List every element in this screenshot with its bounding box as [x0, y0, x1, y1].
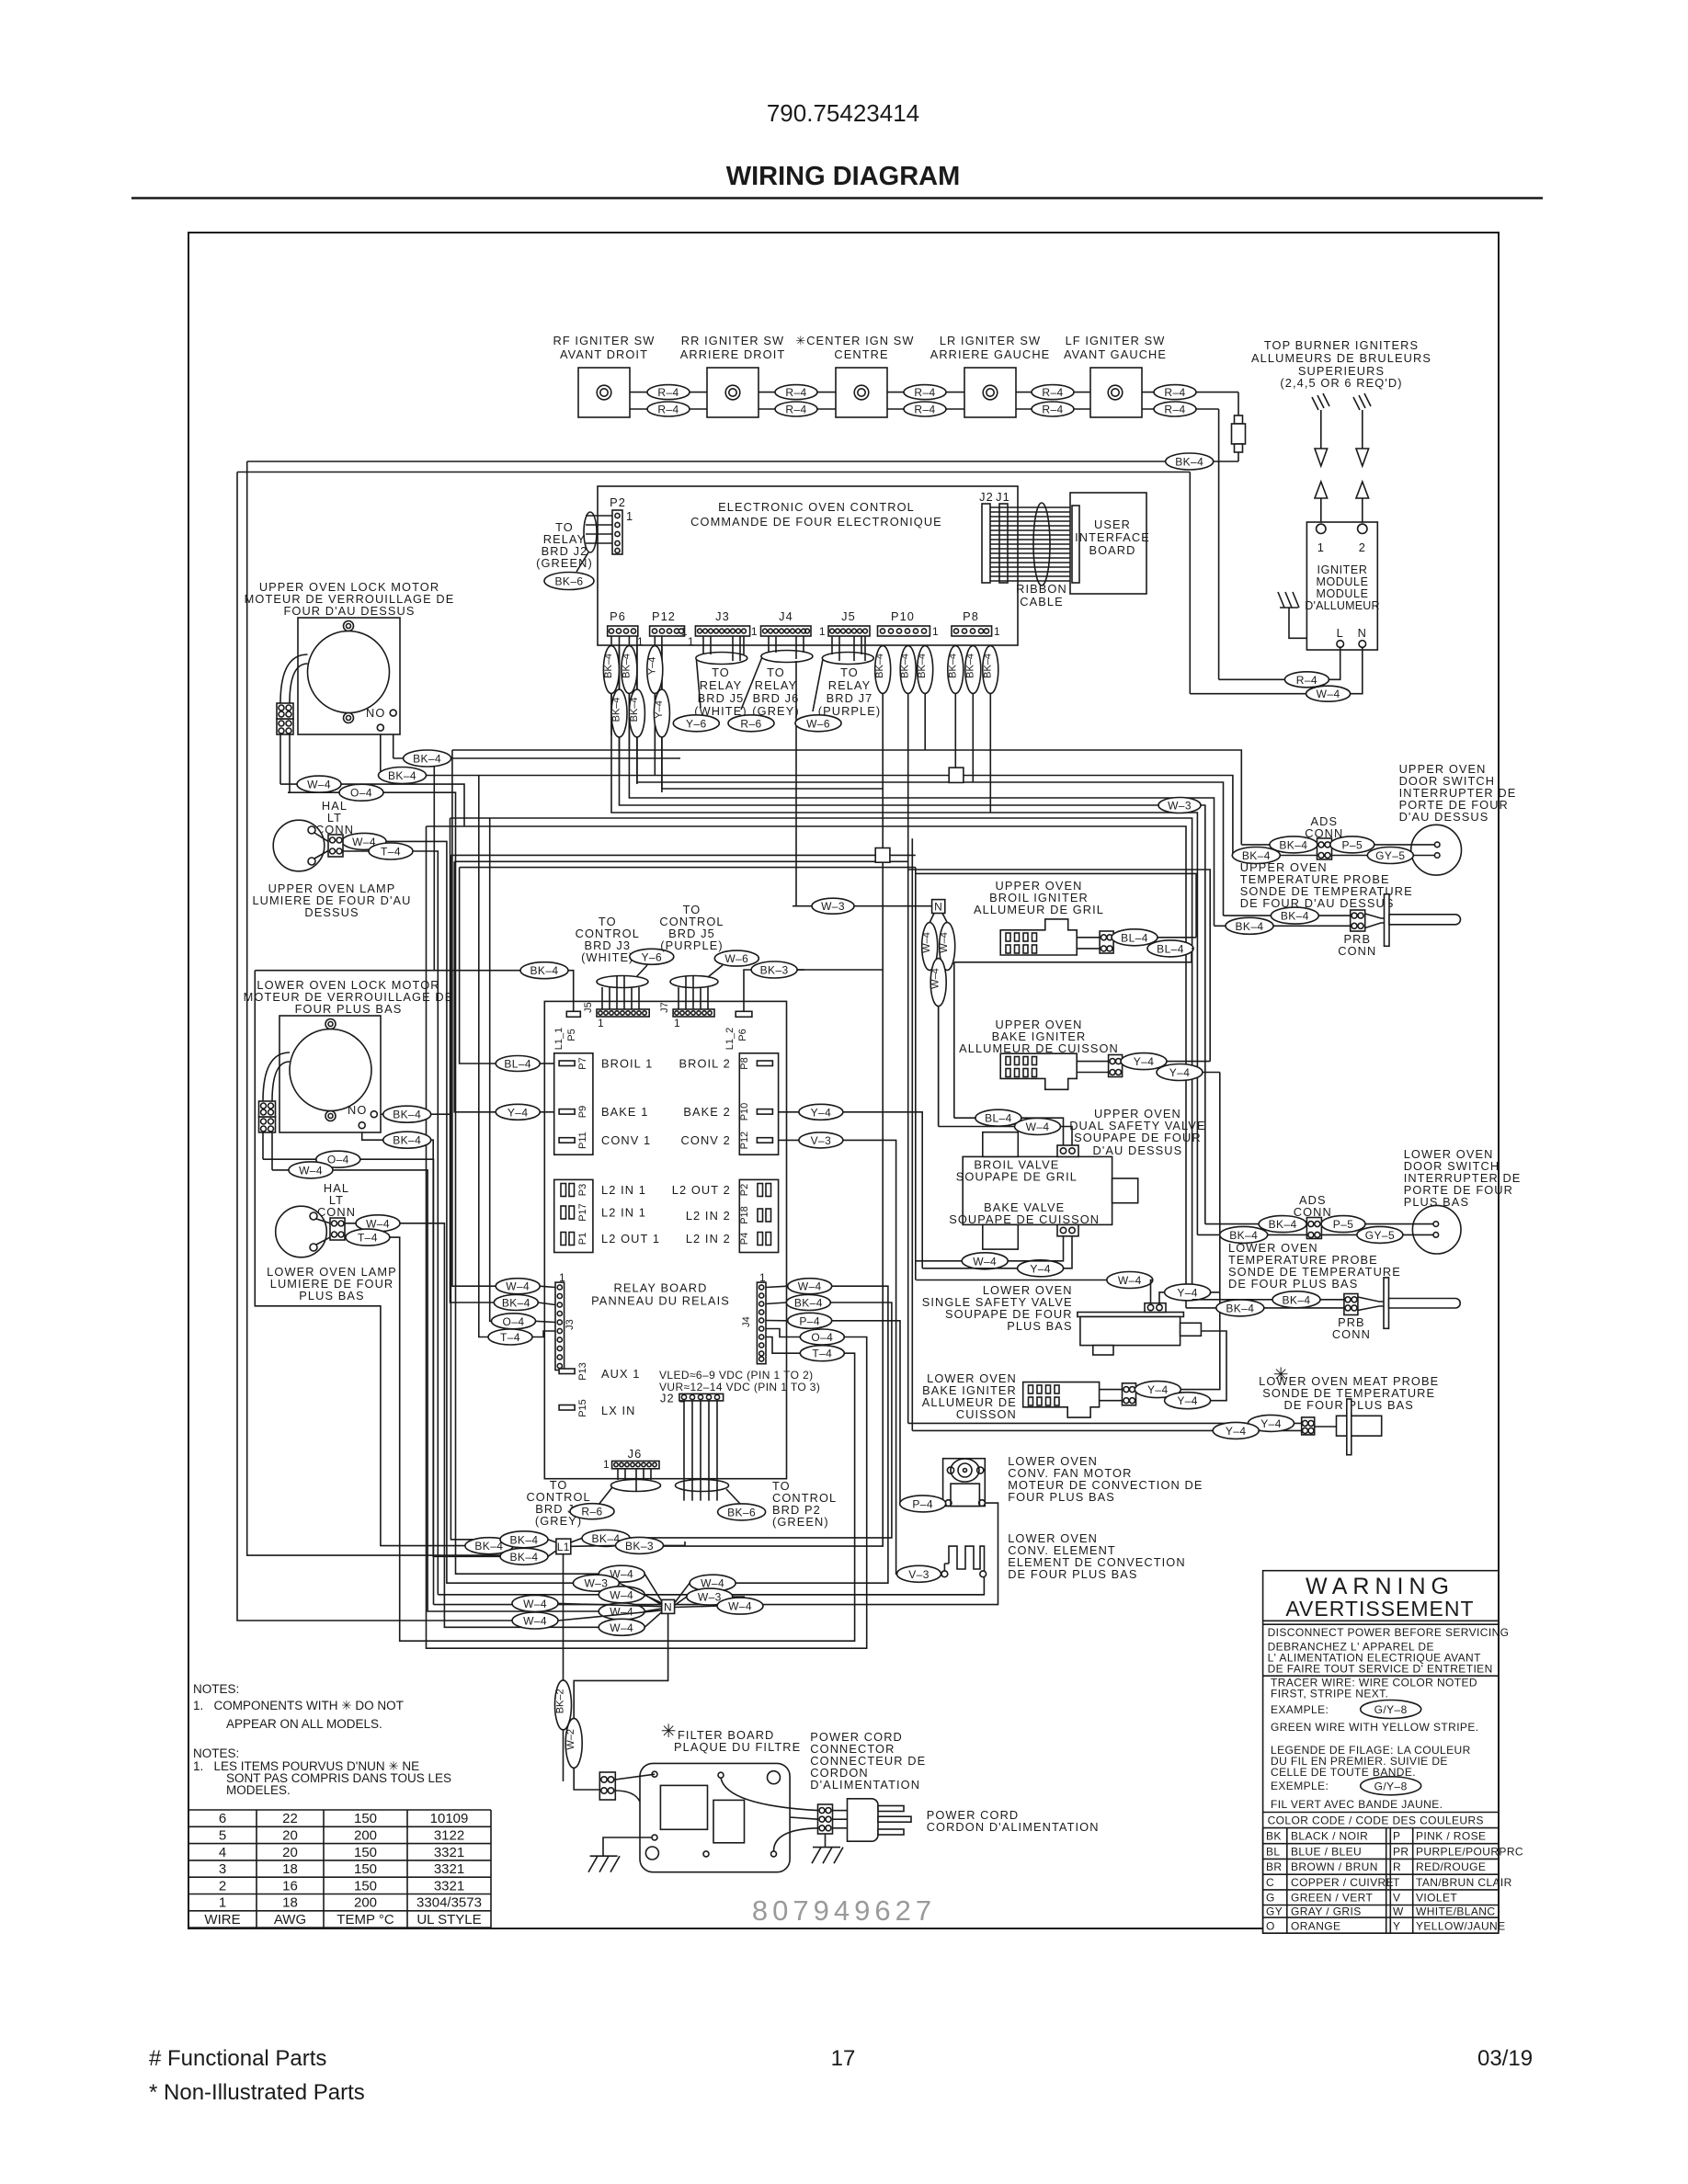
svg-text:LR IGNITER SW: LR IGNITER SW: [940, 334, 1041, 347]
svg-text:P8: P8: [739, 1057, 750, 1069]
wire: [427, 826, 1187, 1308]
svg-text:BK–4: BK–4: [1269, 1218, 1297, 1231]
wire label Y-4: [1249, 1415, 1295, 1431]
svg-text:T–4: T–4: [358, 1232, 378, 1245]
svg-text:W–4: W–4: [299, 1164, 323, 1177]
wire: [832, 1321, 900, 1504]
wire label Y-6: [673, 715, 719, 732]
svg-text:GY–5: GY–5: [1375, 849, 1405, 862]
wire label BK-4: [1259, 1216, 1306, 1233]
svg-text:L2 IN 2: L2 IN 2: [686, 1232, 731, 1246]
wire label Y-6: [630, 949, 674, 964]
wire: [255, 970, 520, 972]
wire: [843, 1140, 897, 1574]
svg-text:4: 4: [219, 1845, 226, 1860]
wire label BK-4: [629, 689, 644, 737]
svg-text:1: 1: [681, 625, 688, 638]
svg-text:Y–4: Y–4: [1226, 1425, 1247, 1438]
svg-text:CONN: CONN: [1338, 944, 1376, 958]
relay board connector L1_2 P6: [736, 1011, 752, 1017]
wire label W-4: [496, 1279, 540, 1294]
wire label BK-4: [965, 646, 981, 694]
svg-text:BK–4: BK–4: [1283, 1293, 1311, 1306]
svg-text:W–3: W–3: [1168, 800, 1192, 813]
wire label O-4: [492, 1314, 536, 1329]
svg-text:PINK / ROSE: PINK / ROSE: [1416, 1830, 1486, 1843]
wire: [460, 868, 540, 1064]
svg-text:BLACK / NOIR: BLACK / NOIR: [1291, 1830, 1368, 1843]
svg-text:3321: 3321: [434, 1861, 464, 1877]
svg-text:5: 5: [219, 1828, 226, 1844]
svg-text:PLAQUE DU FILTRE: PLAQUE DU FILTRE: [674, 1740, 801, 1754]
svg-text:WIRE: WIRE: [204, 1912, 240, 1928]
svg-text:Y–4: Y–4: [1177, 1394, 1198, 1407]
svg-text:6: 6: [219, 1811, 226, 1826]
svg-text:BR: BR: [1266, 1860, 1282, 1873]
relay board (PANNEAU DU RELAIS): [544, 1001, 820, 1478]
upper lock motor wire label ovals: [297, 750, 451, 859]
relay board connectors P7 P9 P11 (BROIL1/BAKE1/CONV1): [554, 1053, 593, 1155]
wire: [454, 861, 540, 1112]
svg-text:P–5: P–5: [1333, 1218, 1354, 1231]
J2 bundle down: [684, 1401, 717, 1501]
wire: [263, 1159, 434, 1604]
wire: [733, 1596, 745, 1598]
svg-text:(GREEN): (GREEN): [772, 1515, 829, 1529]
wire label BK-4: [500, 1531, 548, 1548]
wire: [451, 854, 915, 856]
svg-text:PANNEAU DU RELAIS: PANNEAU DU RELAIS: [591, 1293, 730, 1307]
svg-text:RF IGNITER SW: RF IGNITER SW: [553, 334, 656, 347]
svg-text:1: 1: [603, 1458, 610, 1471]
wire label Y-4: [1165, 1284, 1211, 1301]
wire: [907, 636, 909, 1423]
svg-text:BRD J6: BRD J6: [753, 691, 800, 705]
wire: [237, 472, 512, 1621]
wire label W-4: [342, 833, 386, 849]
wire label R-4: [904, 402, 946, 416]
svg-text:AWG: AWG: [274, 1912, 306, 1928]
wire label W-4: [1306, 686, 1351, 701]
wire label W-4: [922, 923, 938, 971]
leads down from block: [279, 734, 281, 784]
wire label W-4: [289, 1162, 333, 1178]
svg-text:BRD J5: BRD J5: [698, 691, 745, 705]
svg-text:BK–4: BK–4: [413, 753, 441, 766]
svg-text:1: 1: [626, 509, 633, 523]
wire label BK-4: [603, 646, 619, 694]
wire: [345, 1237, 855, 1641]
svg-text:Y–4: Y–4: [508, 1106, 529, 1119]
svg-text:R–4: R–4: [657, 386, 679, 399]
svg-text:COPPER / CUIVRE: COPPER / CUIVRE: [1291, 1876, 1394, 1889]
wire label BL-4: [496, 1056, 540, 1072]
node N (neutral junction, upper oven): [793, 905, 932, 907]
wire label T-4: [346, 1229, 390, 1246]
wire label P-4: [788, 1313, 832, 1328]
wire label BK-4: [983, 646, 998, 694]
wire: [393, 716, 680, 758]
svg-text:1. COMPONENTS WITH ✳ DO NOT: 1. COMPONENTS WITH ✳ DO NOT: [193, 1699, 404, 1712]
svg-text:GY–5: GY–5: [1365, 1229, 1395, 1242]
svg-text:P12: P12: [739, 1132, 750, 1150]
svg-text:PR: PR: [1393, 1846, 1409, 1859]
svg-text:V: V: [1393, 1892, 1400, 1905]
svg-text:P17: P17: [577, 1203, 588, 1222]
svg-text:ALLUMEURS DE BRULEURS: ALLUMEURS DE BRULEURS: [1251, 351, 1431, 365]
wire label W-4: [1015, 1119, 1061, 1135]
svg-text:Y–4: Y–4: [646, 657, 657, 676]
svg-text:O–4: O–4: [327, 1154, 349, 1166]
wire: [644, 1594, 984, 1596]
wire label BK-2: [555, 1680, 572, 1730]
wire label W-4: [297, 776, 341, 792]
wire: [451, 818, 539, 1302]
wire label R-4: [647, 385, 690, 400]
wire label BK-6: [718, 1504, 766, 1520]
svg-text:J2: J2: [979, 490, 994, 504]
wire label T-4: [800, 1346, 844, 1361]
svg-text:MODULE: MODULE: [1316, 575, 1368, 588]
connector block left: [277, 719, 293, 734]
svg-text:R–4: R–4: [657, 404, 679, 416]
svg-text:150: 150: [354, 1878, 377, 1894]
svg-text:BK–4: BK–4: [947, 654, 958, 678]
svg-text:P4: P4: [739, 1233, 750, 1245]
svg-text:O–4: O–4: [811, 1331, 833, 1344]
wire: [343, 851, 438, 1595]
vertical ovals row1/row2 under P6/P12: [611, 636, 662, 792]
svg-text:P10: P10: [891, 609, 915, 623]
wire label BK-4: [404, 750, 451, 767]
svg-text:150: 150: [354, 1845, 377, 1860]
wire label W-4: [690, 1575, 736, 1591]
svg-text:TAN/BRUN CLAIR: TAN/BRUN CLAIR: [1416, 1876, 1512, 1889]
svg-text:VIOLET: VIOLET: [1416, 1892, 1457, 1905]
svg-text:DESSUS: DESSUS: [304, 905, 359, 919]
svg-text:G/Y–8: G/Y–8: [1374, 1703, 1408, 1716]
wire label W-6: [714, 950, 758, 966]
wire label BK-4: [1232, 847, 1280, 864]
wire label Y-4: [496, 1104, 540, 1120]
svg-text:P11: P11: [577, 1132, 588, 1149]
svg-text:BK–4: BK–4: [393, 1109, 421, 1121]
wire: [795, 661, 797, 906]
wire label W-3: [812, 898, 854, 914]
svg-text:P5: P5: [566, 1029, 577, 1041]
svg-text:GREEN / VERT: GREEN / VERT: [1291, 1892, 1374, 1905]
svg-text:R–4: R–4: [785, 386, 806, 399]
svg-text:L1_2: L1_2: [724, 1028, 736, 1050]
svg-text:L2 OUT 2: L2 OUT 2: [672, 1183, 731, 1197]
wire label BK-6: [544, 573, 594, 590]
svg-text:N: N: [664, 1600, 672, 1613]
svg-text:W–4: W–4: [930, 968, 941, 989]
wire label W-4: [940, 923, 955, 971]
svg-text:J4: J4: [779, 609, 793, 623]
svg-text:17: 17: [831, 2046, 856, 2071]
relay board connectors P2 P18 P4 (L2 IN/OUT 2): [739, 1179, 778, 1252]
wire label P-5: [1330, 836, 1374, 853]
wire label BK-4: [1272, 1291, 1320, 1308]
igniter switch CENTER: [836, 368, 887, 417]
svg-text:1: 1: [751, 625, 758, 638]
electronic oven control board (EOC): [536, 486, 1150, 648]
svg-text:W–3: W–3: [698, 1591, 722, 1604]
svg-text:R–4: R–4: [914, 404, 935, 416]
wire: [664, 636, 884, 1546]
wire label W-6: [795, 715, 841, 732]
svg-text:W–6: W–6: [806, 717, 830, 730]
junction square: [949, 768, 964, 782]
wire: [381, 731, 1233, 855]
lower oven lamp (HAL LT CONN): [267, 1181, 397, 1302]
svg-text:RIBBON: RIBBON: [1016, 582, 1067, 596]
wire: [454, 860, 908, 862]
svg-text:V–3: V–3: [811, 1134, 832, 1147]
wire label W-4: [599, 1587, 644, 1603]
wire label O-4: [339, 784, 383, 801]
svg-text:D'ALIMENTATION: D'ALIMENTATION: [810, 1778, 920, 1792]
warning box and color code table: [1263, 1571, 1523, 1934]
svg-text:W: W: [1393, 1905, 1404, 1918]
wire: [247, 461, 548, 1555]
wire label P-5: [1321, 1216, 1365, 1233]
wire: [288, 792, 599, 1574]
svg-text:P3: P3: [577, 1184, 588, 1196]
svg-text:BK–4: BK–4: [917, 654, 928, 678]
svg-text:* Non-Illustrated Parts: * Non-Illustrated Parts: [149, 2080, 365, 2105]
svg-text:COLOR CODE / CODE DES COULEU: COLOR CODE / CODE DES COULEURS: [1268, 1814, 1484, 1827]
svg-text:NOTES:: NOTES:: [193, 1746, 239, 1760]
svg-text:BK–4: BK–4: [603, 654, 614, 678]
svg-text:16: 16: [282, 1878, 298, 1894]
bus wires to left: [247, 461, 1238, 462]
igniter switch LF (AVANT GAUCHE): [1090, 368, 1142, 417]
svg-text:BK–6: BK–6: [555, 575, 584, 588]
svg-text:BL–4: BL–4: [985, 1112, 1012, 1125]
svg-text:(2,4,5 OR 6 REQ'D): (2,4,5 OR 6 REQ'D): [1280, 376, 1402, 390]
svg-text:✳: ✳: [661, 1722, 678, 1742]
wire: [989, 636, 991, 813]
ground (power cord connector): [812, 1834, 843, 1863]
svg-text:L: L: [1337, 626, 1344, 640]
wire label W-4: [599, 1565, 644, 1582]
svg-text:RED/ROUGE: RED/ROUGE: [1416, 1860, 1486, 1873]
svg-text:J6: J6: [628, 1447, 643, 1461]
wire label O-4: [316, 1151, 360, 1167]
svg-text:D'AU DESSUS: D'AU DESSUS: [1399, 810, 1489, 824]
wire: [345, 1223, 599, 1628]
node L1 (line junction): [556, 1539, 571, 1554]
wire label GY-5: [1367, 847, 1413, 864]
wire label R-4: [1154, 402, 1196, 416]
svg-text:INTERFACE: INTERFACE: [1075, 530, 1150, 544]
svg-text:BK–4: BK–4: [982, 654, 993, 678]
svg-text:MODELES.: MODELES.: [226, 1783, 291, 1797]
wire: [662, 636, 883, 789]
wire: [452, 750, 1241, 845]
svg-text:DE FOUR PLUS BAS: DE FOUR PLUS BAS: [1008, 1567, 1137, 1581]
wire: [433, 758, 435, 971]
svg-text:20: 20: [282, 1828, 298, 1844]
wire label BK-4: [582, 1530, 630, 1546]
wire label BK-4: [918, 646, 933, 694]
svg-text:BK–4: BK–4: [629, 697, 640, 722]
svg-text:ALLUMEUR DE GRIL: ALLUMEUR DE GRIL: [974, 903, 1104, 916]
svg-text:J7: J7: [659, 1002, 670, 1013]
svg-text:LF IGNITER SW: LF IGNITER SW: [1066, 334, 1166, 347]
wire label R-4: [775, 385, 817, 400]
svg-text:T–4: T–4: [381, 846, 401, 859]
lower oven lock motor: [244, 978, 454, 1170]
top burner igniter spark electrode 2: [1353, 393, 1371, 525]
svg-text:BK–4: BK–4: [621, 654, 632, 678]
svg-text:G/Y–8: G/Y–8: [1374, 1780, 1408, 1792]
svg-text:AVANT GAUCHE: AVANT GAUCHE: [1064, 347, 1167, 361]
svg-text:W–3: W–3: [821, 900, 845, 913]
svg-text:1: 1: [688, 635, 694, 648]
relay board pins P13 AUX1, P15 LX IN, J2: [559, 1369, 575, 1374]
svg-text:V–3: V–3: [908, 1568, 930, 1581]
svg-text:P12: P12: [652, 609, 676, 623]
svg-text:CONN: CONN: [317, 1205, 356, 1219]
wire label W-4: [1107, 1272, 1153, 1289]
wire: [843, 1112, 922, 1268]
svg-text:# Functional Parts: # Functional Parts: [149, 2046, 326, 2071]
svg-text:IGNITER: IGNITER: [1317, 563, 1368, 576]
svg-text:BAKE 1: BAKE 1: [601, 1105, 648, 1119]
wire gauge table: [188, 1810, 491, 1928]
wire label BK-4: [383, 1132, 431, 1148]
wire label BK-4: [520, 962, 568, 979]
svg-text:PURPLE/POURPRC: PURPLE/POURPRC: [1416, 1846, 1523, 1859]
wire label R-4: [775, 402, 817, 416]
svg-text:FOUR D'AU DESSUS: FOUR D'AU DESSUS: [283, 604, 415, 618]
J7 bundle up: [679, 976, 708, 1009]
svg-text:R–4: R–4: [1042, 404, 1063, 416]
svg-text:P10: P10: [739, 1103, 750, 1121]
svg-text:BL–4: BL–4: [1121, 931, 1148, 944]
svg-text:BK–4: BK–4: [1281, 910, 1309, 923]
svg-text:W–4: W–4: [366, 1217, 390, 1230]
svg-text:P: P: [1393, 1830, 1400, 1843]
wire: [954, 949, 1192, 962]
wire: [924, 636, 926, 750]
wire label W-4: [512, 1612, 558, 1629]
svg-text:BK–2: BK–2: [555, 1689, 566, 1713]
relay board connector J5: [597, 1009, 649, 1017]
svg-text:J5: J5: [841, 609, 856, 623]
svg-text:Y–4: Y–4: [1177, 1286, 1198, 1299]
svg-text:NOTES:: NOTES:: [193, 1682, 239, 1696]
svg-text:BRD J7: BRD J7: [827, 691, 873, 705]
svg-text:CABLE: CABLE: [1020, 595, 1063, 609]
svg-text:ARRIERE GAUCHE: ARRIERE GAUCHE: [930, 347, 1051, 361]
svg-text:Y–4: Y–4: [1030, 1262, 1051, 1275]
svg-text:1: 1: [932, 625, 939, 638]
svg-text:807949627: 807949627: [752, 1894, 936, 1927]
svg-text:1: 1: [598, 1017, 604, 1029]
wire label T-4: [369, 843, 413, 859]
wire: [452, 750, 540, 1286]
svg-text:1: 1: [674, 1017, 680, 1029]
svg-text:P9: P9: [577, 1106, 588, 1118]
wire: [736, 1286, 888, 1583]
wire: [280, 784, 464, 826]
igniter module (MODULE D'ALLUMEUR): [1305, 522, 1380, 650]
wire label Y-4: [1018, 1260, 1064, 1277]
wire label BK-4: [1271, 907, 1318, 924]
svg-text:P–4: P–4: [912, 1497, 933, 1510]
svg-text:VLED≈6–9 VDC (PIN 1 TO 2): VLED≈6–9 VDC (PIN 1 TO 2): [659, 1369, 814, 1382]
svg-text:(GREEN): (GREEN): [536, 556, 593, 570]
wire label V-3: [799, 1132, 843, 1148]
svg-text:L2 OUT 1: L2 OUT 1: [601, 1232, 660, 1246]
relay board connectors P3 P17 P1 (L2 IN/OUT 1): [554, 1179, 593, 1252]
svg-text:BK–4: BK–4: [611, 697, 622, 722]
ground (filter board): [603, 1837, 652, 1856]
svg-text:DE FOUR D'AU DESSUS: DE FOUR D'AU DESSUS: [1240, 896, 1395, 910]
svg-text:N: N: [934, 901, 942, 914]
svg-text:W–6: W–6: [724, 952, 748, 965]
svg-text:SOUPAPE DE GRIL: SOUPAPE DE GRIL: [956, 1170, 1078, 1184]
svg-text:BL–4: BL–4: [504, 1058, 531, 1071]
wire: [255, 971, 465, 1546]
svg-text:150: 150: [354, 1861, 377, 1877]
svg-text:NO: NO: [366, 706, 385, 720]
svg-text:AUX 1: AUX 1: [601, 1367, 641, 1381]
wire label BK-4: [1220, 1226, 1268, 1243]
svg-text:W–4: W–4: [610, 1606, 633, 1619]
svg-text:GREEN WIRE WITH YELLOW STR: GREEN WIRE WITH YELLOW STRIPE.: [1271, 1721, 1478, 1734]
svg-text:Y: Y: [1393, 1920, 1400, 1933]
svg-text:BK–4: BK–4: [388, 769, 416, 782]
svg-text:WARNING: WARNING: [1306, 1574, 1454, 1599]
svg-text:22: 22: [282, 1811, 298, 1826]
svg-text:R: R: [1393, 1860, 1401, 1873]
svg-text:LX IN: LX IN: [601, 1404, 636, 1417]
svg-text:ARRIERE DROIT: ARRIERE DROIT: [680, 347, 786, 361]
svg-text:TEMP °C: TEMP °C: [336, 1912, 394, 1928]
svg-text:MODULE: MODULE: [1316, 587, 1368, 600]
svg-text:CONV 2: CONV 2: [681, 1133, 731, 1147]
junction square: [875, 848, 890, 863]
wire label BK-4: [465, 1538, 513, 1554]
wire label W-4: [788, 1279, 832, 1294]
wire: [911, 838, 913, 1430]
svg-text:GY: GY: [1266, 1905, 1283, 1918]
wire: [427, 826, 867, 1648]
svg-text:R–6: R–6: [740, 717, 761, 730]
svg-text:J1: J1: [996, 490, 1010, 504]
svg-text:T–4: T–4: [500, 1331, 520, 1344]
wire label BK-4: [786, 1295, 830, 1311]
svg-text:BL: BL: [1266, 1846, 1280, 1859]
svg-text:W–4: W–4: [1317, 688, 1340, 700]
svg-text:BOARD: BOARD: [1089, 543, 1135, 557]
svg-text:W–4: W–4: [921, 932, 932, 953]
svg-text:W–4: W–4: [798, 1280, 822, 1293]
svg-text:W–2: W–2: [565, 1729, 576, 1750]
wires from filter board to power cord connector: [721, 1778, 818, 1810]
J5 bundle up: [602, 976, 639, 1009]
svg-text:W–4: W–4: [1026, 1120, 1050, 1133]
wire label R-4: [647, 402, 690, 416]
wire label W-3: [1158, 798, 1201, 813]
wire label W-3: [573, 1575, 619, 1591]
wire label BK-4: [500, 1548, 548, 1564]
